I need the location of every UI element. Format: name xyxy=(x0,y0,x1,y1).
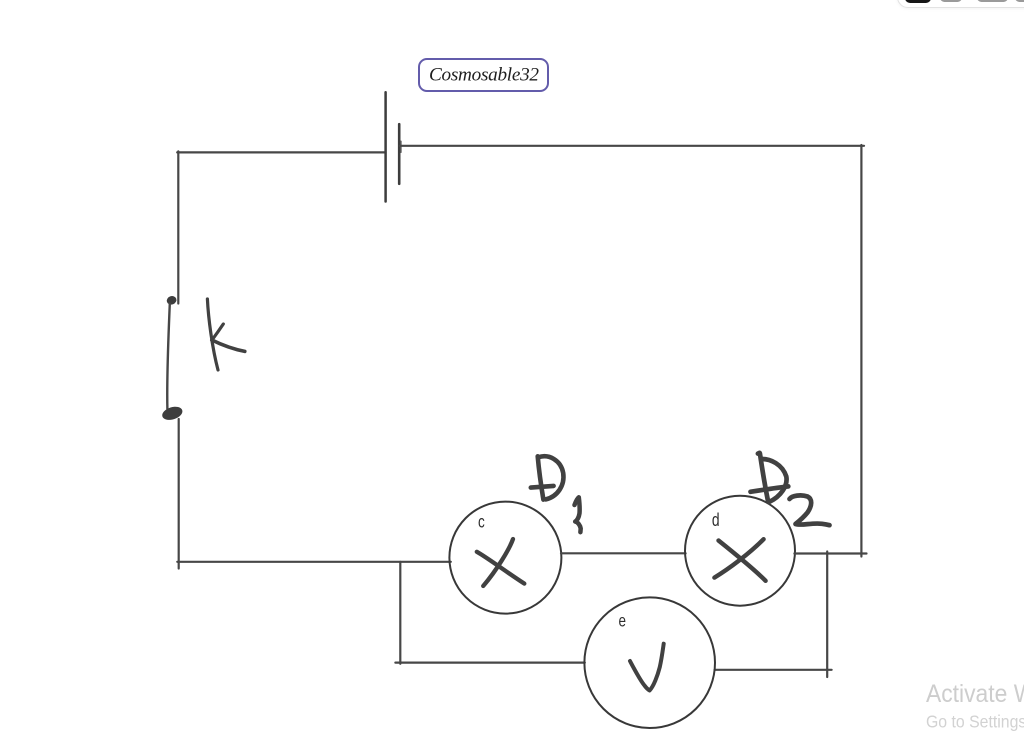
svg-text:e: e xyxy=(619,612,627,631)
wire: left branch vertical (to voltmeter) xyxy=(399,562,401,664)
battery long plate xyxy=(384,92,387,201)
svg-text:Go to Settings to activate Win: Go to Settings to activate Windows. xyxy=(926,711,1024,731)
svg-text:d: d xyxy=(712,510,720,530)
node: switch top terminal dot xyxy=(166,295,178,306)
label K (hand-drawn) xyxy=(207,299,244,370)
toolbar black button xyxy=(905,0,931,3)
voltmeter e circle xyxy=(584,597,715,728)
lamp d circle xyxy=(685,496,795,606)
lamp c X stroke 2 xyxy=(477,552,525,584)
lamp c circle xyxy=(449,502,561,614)
svg-text:Cosmosable32: Cosmosable32 xyxy=(429,65,539,86)
wire: lamp d to right corner xyxy=(794,552,866,554)
label D2 (hand-drawn) xyxy=(751,453,830,525)
wire: top-left horizontal (battery to left corner) xyxy=(177,151,385,153)
label text Cosmosable32 xyxy=(429,65,539,86)
svg-text:c: c xyxy=(478,513,485,532)
wire: right vertical xyxy=(860,145,862,557)
wire: left vertical upper (corner down to switch) xyxy=(177,151,179,303)
wire: lamp c to lamp d xyxy=(561,552,686,554)
node: switch bottom terminal blob xyxy=(161,404,184,422)
wire: voltmeter right horizontal xyxy=(715,669,832,671)
toolbar grey button 1 xyxy=(940,0,963,2)
wire: bottom main horizontal (corner to lamp c) xyxy=(177,561,451,563)
label box Cosmosable32 xyxy=(418,58,549,92)
lamp c X stroke 1 xyxy=(483,539,513,586)
battery short plate xyxy=(398,124,401,184)
lamp d X stroke 1 xyxy=(719,541,766,581)
label c xyxy=(478,513,485,532)
watermark line 2: Go to Settings xyxy=(926,711,1024,731)
switch K lever wire xyxy=(167,304,170,410)
label D1 (hand-drawn) xyxy=(531,456,581,532)
wire: battery tick xyxy=(400,141,402,152)
watermark line 1: Activate Windows xyxy=(926,680,1024,708)
voltmeter V mark xyxy=(630,644,664,691)
lamp d X stroke 2 xyxy=(714,539,763,577)
toolbar grey button 3 xyxy=(1015,0,1024,2)
toolbar grey button 2 xyxy=(977,0,1008,2)
wire: top-right horizontal (battery to right corner) xyxy=(400,145,864,147)
wire: right branch vertical (to voltmeter) xyxy=(826,552,828,678)
label d xyxy=(712,510,720,530)
toolbar container (top-right, cut off) xyxy=(897,0,1024,8)
label e xyxy=(619,612,627,631)
wire: left vertical lower (switch to bottom corner) xyxy=(178,419,180,569)
svg-text:Activate Windows: Activate Windows xyxy=(926,680,1024,708)
wire: voltmeter left horizontal xyxy=(395,661,584,663)
